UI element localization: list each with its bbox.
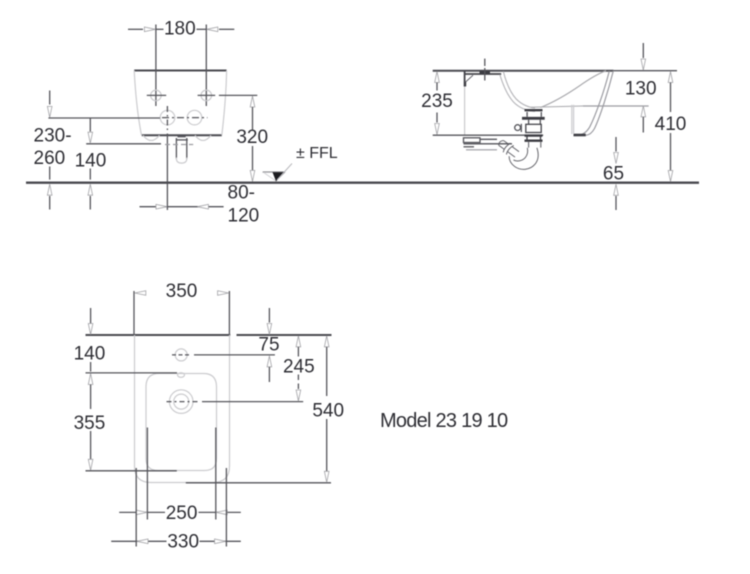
side view wall line — [464, 71, 466, 135]
spigot centerline dashed — [165, 144, 193, 146]
svg-text:140: 140 — [75, 151, 107, 172]
dim 130 — [625, 43, 657, 133]
spigot outlet — [176, 137, 188, 163]
svg-text:355: 355 — [74, 413, 106, 434]
front view body outline — [134, 71, 226, 141]
svg-text:120: 120 — [228, 205, 260, 226]
dim 540 — [312, 336, 344, 483]
wall bracket hook (side) — [465, 75, 473, 86]
plan view inner bowl — [146, 374, 217, 471]
FFL text — [296, 145, 338, 162]
extension line 140 (plan) — [86, 372, 178, 374]
tap hole (plan) — [172, 349, 191, 361]
extension line 140 (front) — [86, 143, 161, 145]
svg-text:540: 540 — [312, 401, 344, 422]
waterline extension to 130 dim — [583, 105, 649, 107]
dim 230-260 — [34, 91, 72, 210]
svg-text:65: 65 — [603, 163, 624, 184]
svg-text:235: 235 — [421, 91, 453, 112]
extension line front edge — [186, 482, 331, 484]
small hole (plan) — [178, 373, 185, 378]
svg-text:130: 130 — [625, 79, 657, 100]
dim 235 — [421, 72, 453, 135]
front interior wall lines (side) — [572, 105, 574, 134]
extension verticals 330 — [136, 468, 226, 547]
svg-text:80-: 80- — [228, 183, 255, 204]
bowl interior curves (side) — [500, 71, 606, 112]
side view bottom extension line — [433, 134, 544, 136]
svg-text:75: 75 — [258, 335, 279, 356]
dim 320 — [236, 96, 268, 181]
dim 140 (front) — [75, 118, 107, 210]
fixing hole right — [198, 90, 216, 101]
svg-text:330: 330 — [167, 532, 199, 553]
fixing hole left — [147, 90, 166, 101]
svg-text:230-: 230- — [34, 126, 72, 147]
extension line 320 — [219, 94, 257, 96]
extension line 355 bottom — [86, 470, 177, 472]
svg-text:140: 140 — [74, 344, 106, 365]
svg-text:245: 245 — [283, 356, 315, 377]
svg-text:250: 250 — [166, 503, 198, 524]
drain clamp ring (side) — [515, 124, 522, 132]
drain (plan) — [167, 390, 198, 414]
drain extension line — [202, 401, 303, 403]
dim 330 — [111, 532, 241, 553]
floor line — [26, 182, 699, 184]
tap hole extension line — [194, 354, 275, 356]
supply hole right — [187, 110, 202, 125]
extension verticals 250 — [147, 428, 215, 520]
supply hole left — [160, 110, 175, 125]
svg-text:260: 260 — [34, 148, 66, 169]
front face curves (side) — [578, 71, 613, 135]
plan view body outline — [135, 335, 230, 483]
bolt centerline left — [155, 25, 157, 107]
supply vertical centerline — [166, 106, 168, 210]
dim 65 — [603, 137, 624, 210]
dim 75 — [258, 308, 279, 382]
model label — [380, 410, 508, 432]
dim 250 — [119, 503, 241, 524]
dim 245 — [283, 336, 315, 401]
svg-text:350: 350 — [166, 281, 198, 302]
deck line (side top) — [465, 73, 501, 75]
svg-text:320: 320 — [236, 127, 268, 148]
front foot (side) — [574, 134, 586, 137]
fixing bolt (side) — [480, 59, 491, 81]
wall mounting bracket (side bottom) — [464, 138, 513, 150]
svg-text:180: 180 — [164, 19, 196, 40]
plan view wall line — [86, 334, 332, 336]
dim 355 (plan) — [74, 413, 106, 470]
P-trap — [499, 141, 541, 170]
trap inlet nut — [525, 136, 543, 141]
bolt centerline right — [205, 25, 207, 107]
FFL level symbol — [263, 164, 292, 182]
dim 350 — [134, 281, 229, 335]
dim 140 (plan) — [74, 308, 106, 409]
dim 80-120 — [140, 183, 260, 227]
svg-text:Model 23 19 10: Model 23 19 10 — [380, 410, 508, 432]
side view rim line — [433, 70, 677, 72]
supply centerline horizontal — [48, 117, 207, 119]
dim 180 — [128, 19, 234, 40]
drain assembly (side) — [522, 110, 545, 132]
svg-text:± FFL: ± FFL — [296, 145, 338, 162]
svg-text:410: 410 — [655, 114, 687, 135]
dim 410 — [655, 72, 687, 182]
